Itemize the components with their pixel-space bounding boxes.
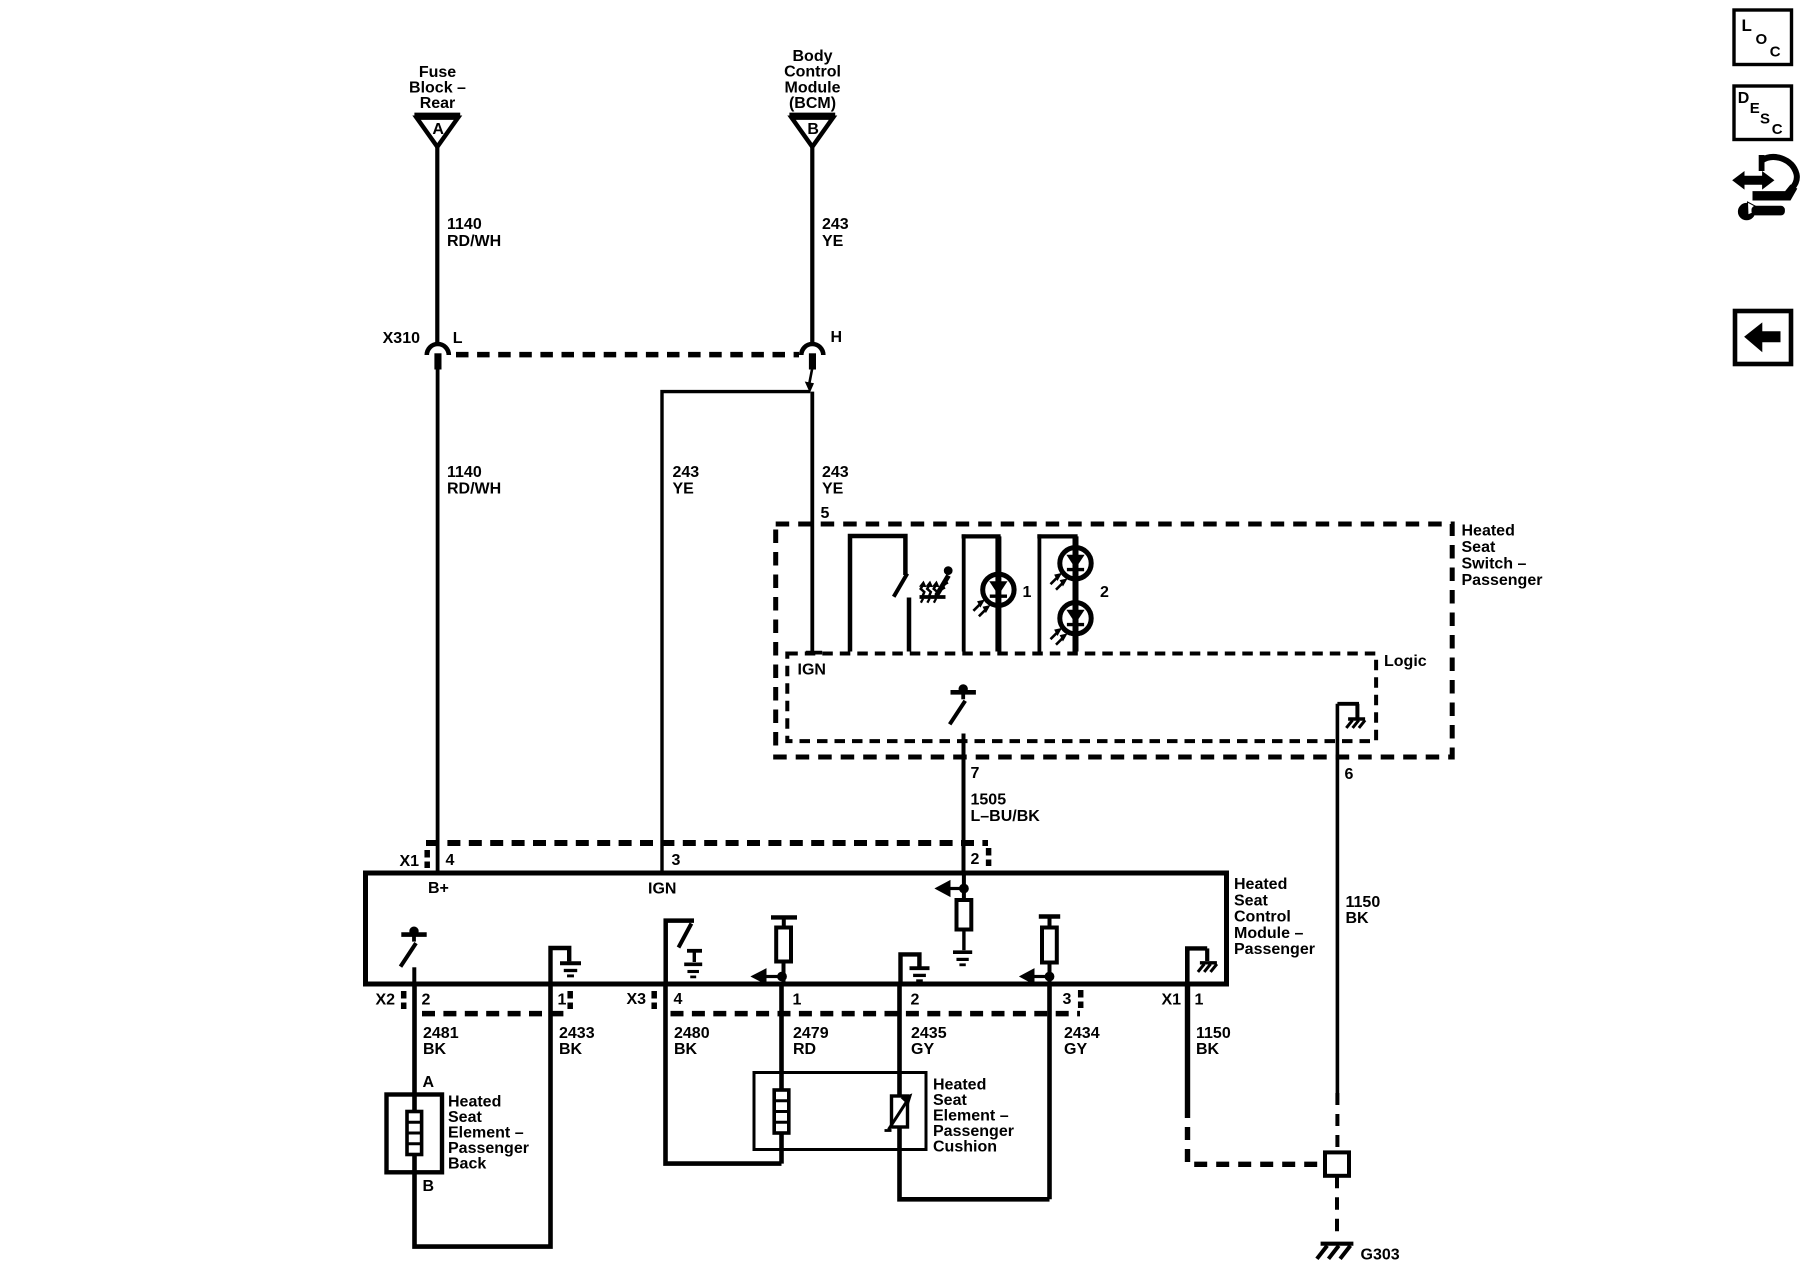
- svg-text:BK: BK: [1196, 1041, 1220, 1058]
- svg-text:X2: X2: [376, 992, 396, 1009]
- svg-text:H: H: [831, 329, 843, 346]
- wire 2481 BK / 2433 BK loop: [415, 984, 551, 1247]
- svg-text:S: S: [1760, 110, 1770, 127]
- svg-text:7: 7: [971, 765, 980, 782]
- internal input resistor to ground at module pin X1-2: [936, 873, 973, 965]
- wire 1150 BK dashed from switch: [1335, 1093, 1339, 1152]
- heated seat element passenger back box: [387, 1095, 443, 1173]
- svg-text:BK: BK: [559, 1041, 583, 1058]
- solid state switch in logic box: [950, 685, 976, 725]
- svg-text:O: O: [1756, 31, 1768, 48]
- svg-text:4: 4: [674, 991, 683, 1008]
- svg-text:3: 3: [1063, 991, 1072, 1008]
- svg-text:5: 5: [821, 505, 830, 522]
- svg-text:1150: 1150: [1346, 894, 1381, 911]
- svg-text:2: 2: [1100, 584, 1109, 601]
- svg-text:Body: Body: [793, 48, 833, 65]
- solid state switch at module pin X2-2: [401, 927, 427, 984]
- svg-text:243: 243: [822, 464, 849, 481]
- LED indicator 1 branch: [962, 534, 1001, 651]
- DESC icon box: [1734, 86, 1792, 140]
- svg-text:3: 3: [672, 852, 681, 869]
- heating element (passenger cushion): [774, 1090, 789, 1133]
- svg-text:Seat: Seat: [448, 1109, 482, 1126]
- svg-text:1: 1: [793, 992, 802, 1009]
- wire 2434 GY: [1047, 984, 1052, 1199]
- mode switch in seat switch: [850, 536, 909, 652]
- wire label 1140 RD/WH: [447, 216, 501, 250]
- svg-text:1140: 1140: [447, 216, 482, 233]
- svg-text:C: C: [1770, 44, 1781, 61]
- svg-text:C: C: [1772, 121, 1783, 138]
- svg-text:2434: 2434: [1064, 1025, 1100, 1042]
- svg-text:Heated: Heated: [1234, 876, 1287, 893]
- svg-text:2433: 2433: [559, 1025, 595, 1042]
- wire label 243 YE: [822, 464, 849, 498]
- svg-text:2480: 2480: [674, 1025, 710, 1042]
- svg-text:Control: Control: [784, 64, 841, 81]
- wire label 1150 BK: [1196, 1025, 1231, 1058]
- svg-text:Seat: Seat: [1462, 539, 1496, 556]
- junction arrow at X310 H: [806, 368, 814, 392]
- svg-text:X1: X1: [400, 853, 420, 870]
- svg-text:Heated: Heated: [448, 1094, 501, 1111]
- LED indicator 1: [973, 574, 1014, 616]
- inline connector X310 terminal H: [801, 344, 823, 369]
- svg-text:2: 2: [971, 851, 980, 868]
- wire 243 YE to switch pin 5: [810, 392, 814, 652]
- wire label 2480 BK: [674, 1025, 710, 1058]
- label Heated Seat Element - Passenger Cushion: [933, 1077, 1014, 1156]
- svg-text:Cushion: Cushion: [933, 1139, 997, 1156]
- heated seat control module - passenger box: [366, 873, 1227, 984]
- dashed wire to G303: [1335, 1176, 1339, 1236]
- svg-text:D: D: [1738, 90, 1750, 107]
- svg-text:L: L: [453, 330, 463, 347]
- svg-text:YE: YE: [673, 481, 695, 498]
- connector X1 dashed line: [426, 840, 988, 846]
- svg-text:YE: YE: [822, 233, 844, 250]
- pin 5 terminal foot: [806, 651, 822, 655]
- wire 2435 GY: [900, 984, 1050, 1199]
- svg-text:Module: Module: [785, 79, 841, 96]
- wire 1505 L-BU/BK pin 7: [962, 734, 966, 874]
- wire 1140 RD/WH from X310 to module pin X1-4: [436, 369, 440, 873]
- svg-text:E: E: [1750, 100, 1760, 117]
- svg-text:BK: BK: [674, 1041, 698, 1058]
- wire 1150 BK dashed to splice: [1188, 1105, 1326, 1164]
- svg-text:1140: 1140: [447, 464, 482, 481]
- thermistor (seat cushion temperature sensor): [885, 1094, 912, 1130]
- connector triangle B (BCM): [789, 115, 835, 146]
- svg-text:B: B: [807, 121, 819, 138]
- LOC icon box: [1734, 10, 1792, 65]
- wire label 2435 GY: [911, 1025, 947, 1058]
- LED indicator 2b: [1051, 603, 1092, 645]
- label Fuse Block - Rear: [409, 64, 466, 112]
- svg-text:A: A: [423, 1074, 435, 1091]
- logic dashed box: [787, 654, 1376, 742]
- LED indicator 2a: [1051, 548, 1092, 590]
- internal chassis ground at module pin X1-1: [1185, 948, 1217, 984]
- internal ground at module pin X3-2: [901, 954, 930, 984]
- svg-text:Element –: Element –: [448, 1125, 524, 1142]
- wire label 2433 BK: [559, 1025, 595, 1058]
- svg-text:Heated: Heated: [933, 1077, 986, 1094]
- wire 1150 BK from module pin X1-1: [1185, 984, 1190, 1105]
- label Heated Seat Control Module - Passenger: [1234, 876, 1315, 958]
- svg-text:1505: 1505: [971, 792, 1007, 809]
- svg-text:X3: X3: [627, 991, 647, 1008]
- X310 harness dashed line: [456, 352, 799, 358]
- svg-text:RD/WH: RD/WH: [447, 481, 501, 498]
- svg-text:Element –: Element –: [933, 1108, 1009, 1125]
- svg-text:YE: YE: [822, 481, 844, 498]
- svg-text:1: 1: [1023, 584, 1032, 601]
- internal resistor at module pin X3-1: [752, 917, 798, 984]
- X3 bracket dashes: [651, 991, 657, 1009]
- svg-text:6: 6: [1345, 766, 1354, 783]
- connector X2 dashed line: [422, 1011, 567, 1017]
- svg-text:Rear: Rear: [420, 95, 456, 112]
- wire label 2481 BK: [423, 1025, 459, 1058]
- svg-text:IGN: IGN: [798, 661, 826, 678]
- svg-text:B: B: [423, 1178, 435, 1195]
- svg-text:Control: Control: [1234, 909, 1291, 926]
- heated seat switch - passenger dashed box: [776, 524, 1452, 757]
- svg-text:2435: 2435: [911, 1025, 947, 1042]
- svg-text:2: 2: [911, 992, 920, 1009]
- inline connector X310 terminal L: [427, 344, 449, 369]
- label Heated Seat Switch - Passenger: [1462, 523, 1543, 590]
- svg-text:2479: 2479: [793, 1025, 829, 1042]
- heated seat icon: [920, 567, 953, 603]
- svg-text:Passenger: Passenger: [933, 1123, 1014, 1140]
- ground in logic box: [1337, 704, 1365, 728]
- svg-text:Seat: Seat: [933, 1092, 967, 1109]
- svg-text:X1: X1: [1162, 992, 1182, 1009]
- svg-text:X310: X310: [383, 330, 420, 347]
- heating element (passenger back): [407, 1112, 422, 1155]
- internal switch to ground at module pin X3-4: [666, 921, 703, 984]
- X1 bracket dashes right: [986, 848, 992, 866]
- heated seat element passenger cushion box: [754, 1073, 926, 1150]
- svg-text:Passenger: Passenger: [1234, 941, 1315, 958]
- wire 1150 BK pin 6 (solid): [1336, 704, 1340, 1093]
- wire label 1505 L-BU/BK: [971, 792, 1041, 826]
- wire 243 YE from B to X310: [810, 147, 814, 344]
- wiring repair icon: [1733, 156, 1797, 220]
- svg-text:Passenger: Passenger: [1462, 572, 1543, 589]
- X1 bracket dashes left: [424, 850, 430, 868]
- svg-text:2: 2: [422, 992, 431, 1009]
- LED indicator 2 branch: [1037, 534, 1077, 651]
- svg-text:L–BU/BK: L–BU/BK: [971, 808, 1041, 825]
- svg-text:Back: Back: [448, 1156, 486, 1173]
- svg-text:RD/WH: RD/WH: [447, 233, 501, 250]
- wire 1140 RD/WH from A to X310: [435, 147, 439, 344]
- svg-text:Switch –: Switch –: [1462, 556, 1527, 573]
- wire label 2479 RD: [793, 1025, 829, 1058]
- svg-text:Fuse: Fuse: [419, 64, 456, 81]
- svg-text:Heated: Heated: [1462, 523, 1515, 540]
- label Heated Seat Element - Passenger Back: [448, 1094, 529, 1173]
- svg-text:BK: BK: [423, 1041, 447, 1058]
- wire label 243 YE: [822, 216, 849, 250]
- ground G303: [1317, 1244, 1354, 1259]
- wire label 243 YE: [673, 464, 700, 498]
- svg-text:1: 1: [558, 992, 567, 1009]
- wire label 1150 BK: [1346, 894, 1381, 927]
- wire label 2434 GY: [1064, 1025, 1100, 1058]
- label Body Control Module (BCM): [784, 48, 841, 112]
- wire 2480 BK: [666, 984, 782, 1164]
- svg-text:2481: 2481: [423, 1025, 459, 1042]
- splice S-box: [1325, 1152, 1349, 1175]
- svg-text:G303: G303: [1361, 1247, 1400, 1264]
- svg-text:Seat: Seat: [1234, 892, 1268, 909]
- svg-text:243: 243: [673, 464, 700, 481]
- svg-text:243: 243: [822, 216, 849, 233]
- X2 bracket dashes: [401, 991, 407, 1009]
- internal resistor at module pin X3-3: [1020, 917, 1060, 985]
- connector X3 dashed line: [671, 1011, 1081, 1017]
- svg-text:(BCM): (BCM): [789, 95, 836, 112]
- connector triangle A (Fuse Block - Rear): [414, 115, 460, 146]
- svg-text:GY: GY: [1064, 1041, 1087, 1058]
- internal ground at module pin X2-1: [551, 948, 582, 984]
- wire 2479 RD: [779, 984, 784, 1164]
- svg-text:1150: 1150: [1196, 1025, 1231, 1042]
- svg-text:L: L: [1742, 16, 1752, 35]
- svg-text:4: 4: [446, 852, 455, 869]
- svg-text:Block –: Block –: [409, 79, 466, 96]
- svg-text:IGN: IGN: [648, 881, 676, 898]
- X2 bracket dashes right: [567, 991, 573, 1009]
- svg-text:Module –: Module –: [1234, 925, 1303, 942]
- svg-text:Logic: Logic: [1384, 653, 1427, 670]
- wire label 1140 RD/WH: [447, 464, 501, 498]
- svg-text:GY: GY: [911, 1041, 934, 1058]
- svg-text:Passenger: Passenger: [448, 1140, 529, 1157]
- back arrow icon box: [1735, 311, 1791, 364]
- svg-text:1: 1: [1195, 992, 1204, 1009]
- svg-text:RD: RD: [793, 1041, 816, 1058]
- svg-text:A: A: [432, 121, 444, 138]
- svg-text:B+: B+: [428, 880, 449, 897]
- wire 243 YE branch to IGN pin X1-3: [662, 392, 810, 873]
- svg-text:BK: BK: [1346, 910, 1370, 927]
- X3 bracket dashes right: [1078, 990, 1084, 1008]
